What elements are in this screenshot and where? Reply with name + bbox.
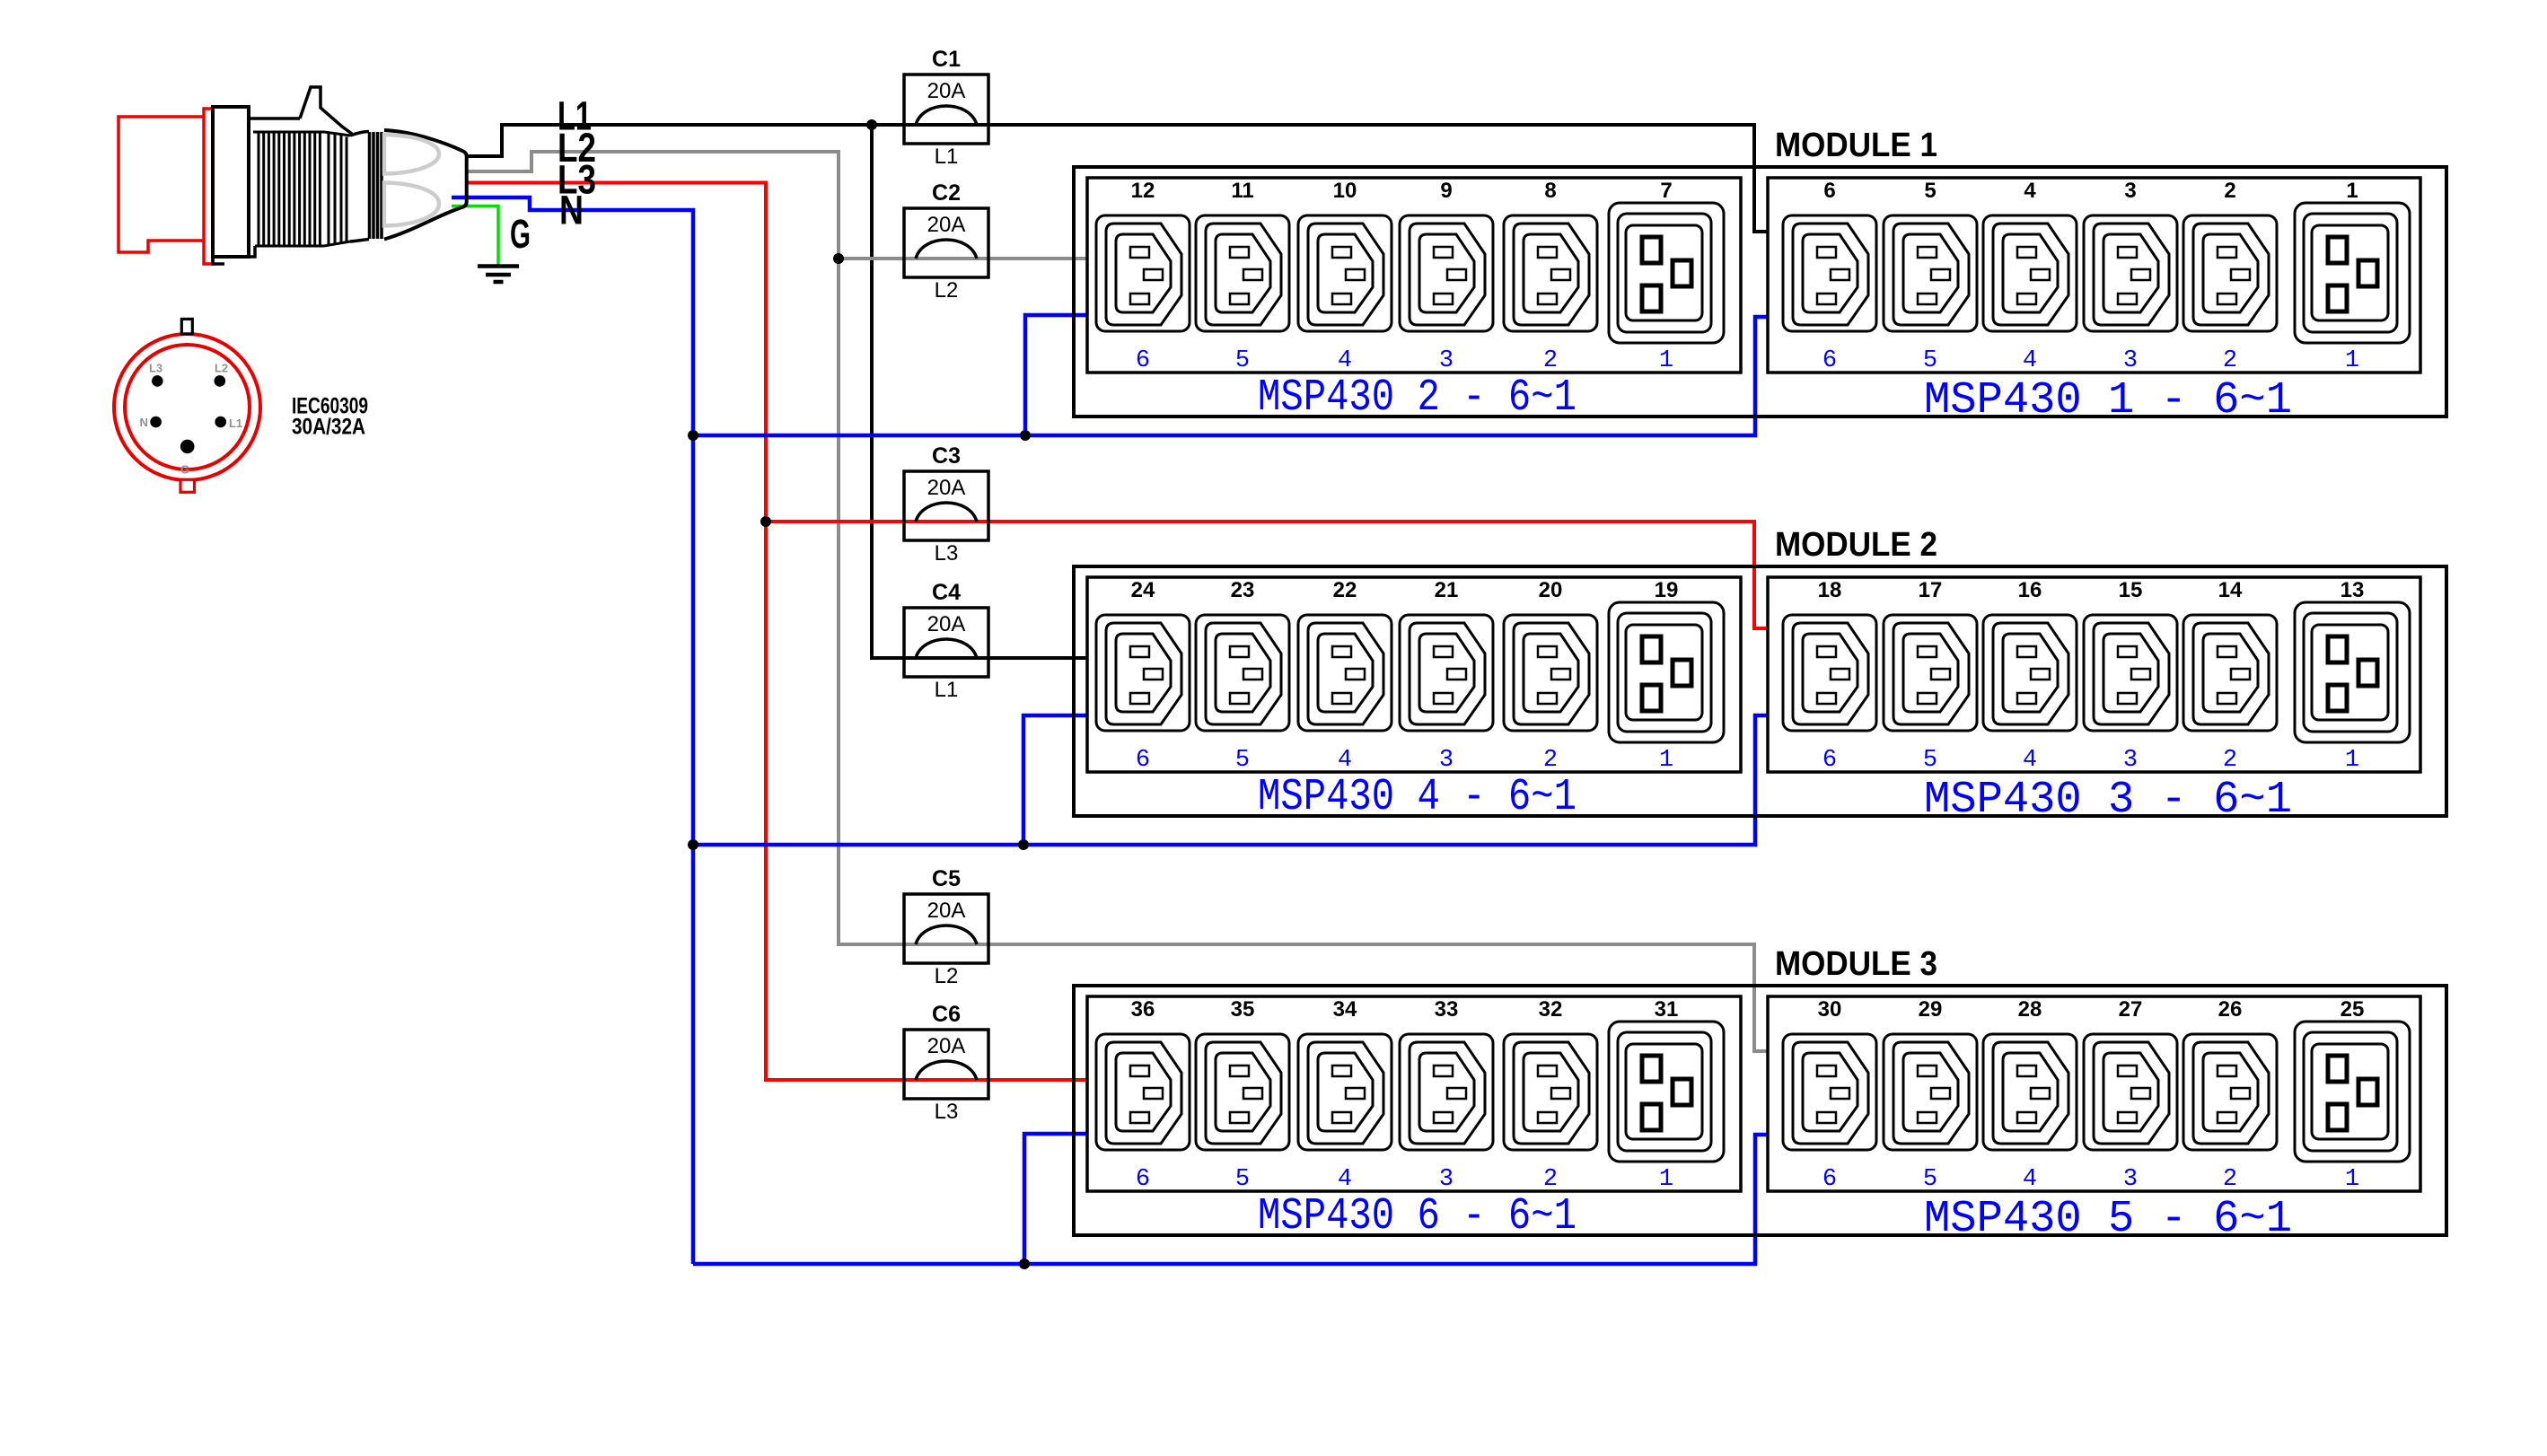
svg-text:1: 1 — [2345, 747, 2359, 774]
svg-text:12: 12 — [1131, 179, 1155, 203]
svg-text:1: 1 — [1659, 1166, 1673, 1193]
svg-text:G: G — [180, 463, 189, 477]
svg-text:N: N — [140, 416, 148, 429]
svg-text:MODULE 2: MODULE 2 — [1775, 526, 1937, 564]
svg-text:29: 29 — [1919, 997, 1943, 1022]
svg-text:N: N — [559, 188, 584, 233]
svg-text:C5: C5 — [932, 866, 961, 891]
svg-text:C1: C1 — [932, 47, 961, 72]
svg-text:23: 23 — [1231, 578, 1255, 602]
svg-text:6: 6 — [1136, 347, 1150, 374]
svg-text:3: 3 — [2124, 179, 2136, 203]
svg-text:19: 19 — [1655, 578, 1679, 602]
svg-text:2: 2 — [2223, 747, 2237, 774]
svg-text:6: 6 — [1822, 747, 1837, 774]
svg-text:5: 5 — [1235, 347, 1250, 374]
svg-text:3: 3 — [1439, 347, 1454, 374]
svg-text:5: 5 — [1235, 1166, 1250, 1193]
svg-text:L1: L1 — [935, 145, 959, 169]
svg-text:35: 35 — [1231, 997, 1255, 1022]
svg-text:6: 6 — [1823, 179, 1835, 203]
svg-text:20A: 20A — [927, 612, 966, 636]
svg-text:26: 26 — [2218, 997, 2243, 1022]
svg-text:13: 13 — [2341, 578, 2365, 602]
svg-text:17: 17 — [1919, 578, 1943, 602]
svg-text:34: 34 — [1333, 997, 1357, 1022]
svg-text:4: 4 — [2023, 1166, 2037, 1193]
svg-text:L3: L3 — [935, 1100, 959, 1124]
svg-text:MSP430 6 - 6~1: MSP430 6 - 6~1 — [1258, 1191, 1577, 1242]
svg-text:5: 5 — [1924, 179, 1936, 203]
svg-text:MODULE 3: MODULE 3 — [1775, 945, 1937, 983]
svg-text:1: 1 — [2346, 179, 2358, 203]
svg-text:C3: C3 — [932, 443, 961, 469]
svg-text:33: 33 — [1435, 997, 1459, 1022]
svg-text:20A: 20A — [927, 213, 966, 237]
svg-text:C4: C4 — [932, 580, 961, 605]
svg-text:20: 20 — [1539, 578, 1563, 602]
svg-text:3: 3 — [2123, 1166, 2138, 1193]
svg-text:4: 4 — [2023, 747, 2037, 774]
svg-text:MSP430 3 - 6~1: MSP430 3 - 6~1 — [1924, 775, 2292, 826]
svg-text:2: 2 — [1543, 347, 1558, 374]
svg-text:21: 21 — [1435, 578, 1459, 602]
svg-text:18: 18 — [1818, 578, 1842, 602]
svg-text:MSP430 5 - 6~1: MSP430 5 - 6~1 — [1924, 1194, 2292, 1245]
svg-text:L1: L1 — [935, 678, 959, 702]
svg-text:4: 4 — [1338, 347, 1352, 374]
svg-text:1: 1 — [1659, 747, 1673, 774]
svg-text:3: 3 — [2123, 747, 2138, 774]
svg-text:20A: 20A — [927, 899, 966, 923]
svg-text:22: 22 — [1333, 578, 1357, 602]
svg-text:20A: 20A — [927, 79, 966, 103]
svg-text:L1: L1 — [229, 417, 242, 430]
svg-text:25: 25 — [2341, 997, 2365, 1022]
svg-text:14: 14 — [2218, 578, 2243, 602]
svg-text:MSP430 2 - 6~1: MSP430 2 - 6~1 — [1258, 373, 1577, 424]
svg-text:1: 1 — [2345, 1166, 2359, 1193]
svg-text:16: 16 — [2018, 578, 2042, 602]
svg-text:5: 5 — [1923, 1166, 1937, 1193]
svg-text:2: 2 — [2224, 179, 2235, 203]
svg-text:5: 5 — [1235, 747, 1250, 774]
svg-text:1: 1 — [1659, 347, 1673, 374]
svg-text:6: 6 — [1822, 1166, 1837, 1193]
svg-text:8: 8 — [1544, 179, 1556, 203]
svg-text:15: 15 — [2119, 578, 2143, 602]
svg-text:4: 4 — [1338, 1166, 1352, 1193]
svg-text:3: 3 — [1439, 1166, 1454, 1193]
svg-text:36: 36 — [1131, 997, 1155, 1022]
svg-text:L3: L3 — [935, 541, 959, 566]
svg-text:20A: 20A — [927, 1034, 966, 1058]
svg-text:2: 2 — [1543, 1166, 1558, 1193]
svg-text:9: 9 — [1440, 179, 1452, 203]
svg-text:3: 3 — [1439, 747, 1454, 774]
svg-text:3: 3 — [2123, 347, 2138, 374]
svg-text:10: 10 — [1333, 179, 1357, 203]
svg-text:31: 31 — [1655, 997, 1679, 1022]
svg-text:2: 2 — [2223, 1166, 2237, 1193]
svg-text:L3: L3 — [149, 362, 162, 375]
svg-text:11: 11 — [1231, 179, 1253, 203]
svg-text:L2: L2 — [935, 964, 959, 988]
svg-text:G: G — [510, 211, 531, 257]
svg-text:1: 1 — [2345, 347, 2359, 374]
svg-text:MODULE 1: MODULE 1 — [1775, 127, 1937, 164]
svg-text:32: 32 — [1539, 997, 1563, 1022]
svg-text:L2: L2 — [935, 278, 959, 303]
svg-text:6: 6 — [1822, 347, 1837, 374]
svg-text:30: 30 — [1818, 997, 1842, 1022]
svg-text:2: 2 — [2223, 347, 2237, 374]
svg-text:5: 5 — [1923, 747, 1937, 774]
svg-text:L2: L2 — [215, 362, 228, 375]
svg-text:C6: C6 — [932, 1002, 961, 1027]
svg-text:20A: 20A — [927, 476, 966, 500]
svg-text:5: 5 — [1923, 347, 1937, 374]
svg-text:4: 4 — [2023, 347, 2037, 374]
svg-text:MSP430 1 - 6~1: MSP430 1 - 6~1 — [1924, 375, 2292, 426]
svg-text:24: 24 — [1131, 578, 1155, 602]
svg-text:4: 4 — [2024, 179, 2036, 203]
svg-text:27: 27 — [2119, 997, 2143, 1022]
svg-text:6: 6 — [1136, 1166, 1150, 1193]
svg-text:6: 6 — [1136, 747, 1150, 774]
svg-text:7: 7 — [1660, 179, 1672, 203]
svg-text:28: 28 — [2018, 997, 2042, 1022]
svg-text:30A/32A: 30A/32A — [292, 415, 365, 440]
svg-text:4: 4 — [1338, 747, 1352, 774]
svg-text:C2: C2 — [932, 180, 961, 206]
svg-text:MSP430 4 - 6~1: MSP430 4 - 6~1 — [1258, 772, 1577, 823]
svg-text:2: 2 — [1543, 747, 1558, 774]
